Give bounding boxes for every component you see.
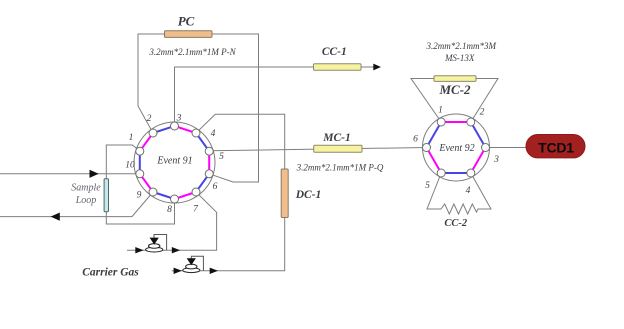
svg-text:3.2mm*2.1mm*3M: 3.2mm*2.1mm*3M bbox=[426, 41, 497, 51]
svg-text:3.2mm*2.1mm*1M P-N: 3.2mm*2.1mm*1M P-N bbox=[148, 47, 236, 57]
svg-text:Event 91: Event 91 bbox=[156, 156, 192, 167]
svg-text:6: 6 bbox=[413, 135, 418, 145]
svg-text:MC-2: MC-2 bbox=[438, 82, 471, 97]
svg-text:Sample: Sample bbox=[71, 183, 101, 194]
svg-text:MS-13X: MS-13X bbox=[444, 53, 475, 63]
svg-text:1: 1 bbox=[438, 106, 443, 116]
svg-text:MC-1: MC-1 bbox=[322, 132, 350, 144]
svg-text:4: 4 bbox=[466, 186, 471, 196]
svg-text:Loop: Loop bbox=[75, 195, 97, 206]
svg-text:10: 10 bbox=[125, 161, 135, 171]
svg-text:5: 5 bbox=[425, 181, 430, 191]
svg-text:9: 9 bbox=[137, 191, 142, 201]
svg-text:5: 5 bbox=[219, 152, 224, 162]
svg-text:CC-2: CC-2 bbox=[444, 218, 468, 229]
svg-text:1: 1 bbox=[129, 133, 134, 143]
svg-text:DC-1: DC-1 bbox=[295, 189, 322, 201]
svg-text:6: 6 bbox=[213, 182, 218, 192]
svg-text:CC-1: CC-1 bbox=[322, 46, 347, 58]
svg-text:4: 4 bbox=[211, 129, 216, 139]
svg-text:8: 8 bbox=[167, 205, 172, 215]
svg-text:3.2mm*2.1mm*1M P-Q: 3.2mm*2.1mm*1M P-Q bbox=[296, 163, 384, 173]
svg-text:Event 92: Event 92 bbox=[438, 143, 474, 154]
svg-text:3: 3 bbox=[176, 114, 182, 124]
svg-text:2: 2 bbox=[147, 114, 152, 124]
svg-text:2: 2 bbox=[480, 108, 485, 118]
svg-text:3: 3 bbox=[493, 155, 499, 165]
svg-text:PC: PC bbox=[178, 14, 195, 29]
svg-text:TCD1: TCD1 bbox=[538, 140, 574, 156]
svg-text:Carrier Gas: Carrier Gas bbox=[82, 267, 139, 279]
